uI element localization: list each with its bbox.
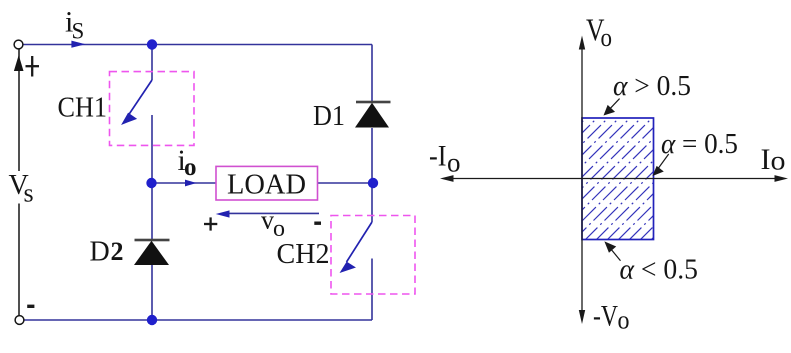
svg-text:o: o bbox=[273, 216, 285, 242]
svg-text:S: S bbox=[72, 19, 85, 44]
svg-text:α = 0.5: α = 0.5 bbox=[661, 128, 738, 160]
svg-text:-I: -I bbox=[429, 140, 447, 173]
svg-text:o: o bbox=[184, 154, 197, 181]
svg-text:I: I bbox=[761, 143, 771, 176]
svg-text:LOAD: LOAD bbox=[227, 170, 306, 201]
svg-text:o: o bbox=[601, 23, 613, 52]
svg-text:-V: -V bbox=[593, 300, 618, 333]
svg-text:CH1: CH1 bbox=[58, 92, 108, 123]
svg-text:2: 2 bbox=[111, 237, 124, 266]
svg-text:D1: D1 bbox=[313, 101, 345, 132]
svg-text:α > 0.5: α > 0.5 bbox=[613, 70, 691, 102]
svg-text:o: o bbox=[771, 146, 786, 176]
svg-text:α < 0.5: α < 0.5 bbox=[620, 254, 699, 286]
svg-text:CH2: CH2 bbox=[277, 239, 330, 270]
svg-text:s: s bbox=[24, 179, 34, 208]
svg-text:o: o bbox=[447, 148, 461, 178]
svg-text:D: D bbox=[90, 237, 110, 268]
svg-text:o: o bbox=[618, 306, 630, 335]
